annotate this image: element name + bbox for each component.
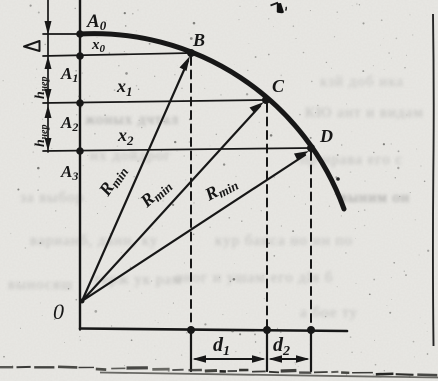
dot O: [80, 299, 85, 304]
arc through A0 B C D: [79, 34, 344, 209]
dot B: [187, 49, 195, 57]
line x0 level A1 to B: [43, 53, 191, 56]
dot on axis below B: [187, 326, 195, 334]
radius line O to B: [82, 61, 188, 301]
d2 right arrowhead: [296, 355, 310, 363]
dashed vertical from D: [310, 152, 312, 330]
svg-text:B: B: [192, 30, 205, 50]
d2 left arrowhead: [269, 355, 283, 363]
d1 right arrowhead: [252, 355, 266, 363]
extension below axis at 267: [266, 332, 268, 371]
svg-text:0: 0: [53, 299, 64, 324]
extension below axis at 311: [310, 332, 312, 371]
line x2 level A3 to D: [43, 148, 311, 151]
horizontal axis: [80, 329, 347, 332]
dot A3: [76, 147, 84, 155]
left dimension line: [47, 0, 49, 152]
arrowhead down above tick A0: [45, 21, 52, 35]
arrowhead up below tick A1: [45, 56, 52, 69]
arrowhead down above tick A3: [45, 138, 52, 151]
faint bleed-through text lines: [320, 74, 404, 91]
dot D: [307, 144, 315, 152]
extension below axis at 191: [190, 334, 192, 371]
dot A1: [76, 52, 84, 60]
bottom page edge streak: [0, 366, 13, 368]
arrowhead at D end of radius: [294, 151, 309, 161]
dot A0: [76, 30, 84, 38]
svg-text:D: D: [319, 126, 333, 146]
d2 dimension shaft: [271, 358, 307, 360]
arrowhead at C end of radius: [250, 102, 265, 114]
dot C: [262, 96, 270, 104]
d1 dimension shaft: [195, 358, 263, 360]
radius line O to D: [82, 155, 305, 301]
arrowhead down above tick A2: [45, 89, 52, 102]
dashed vertical from B: [190, 57, 192, 330]
stray mark top right: [271, 3, 279, 6]
label Delta rotated: [24, 41, 40, 51]
d1 left arrowhead: [193, 355, 207, 363]
right page edge line: [432, 14, 435, 346]
dot on axis below C: [263, 326, 271, 334]
dashed vertical from C: [266, 104, 268, 330]
vertical axis: [79, 0, 81, 330]
tick at A0 level: [43, 33, 80, 35]
svg-text:C: C: [272, 76, 285, 96]
dot on axis below D: [307, 326, 315, 334]
arrowhead at B end of radius: [180, 56, 191, 71]
arrowhead up below tick A2: [45, 105, 52, 118]
line x1 level A2 to C: [43, 100, 266, 103]
dot A2: [76, 99, 84, 107]
stray dot near arc end: [336, 177, 340, 181]
radius line O to C: [82, 106, 260, 301]
